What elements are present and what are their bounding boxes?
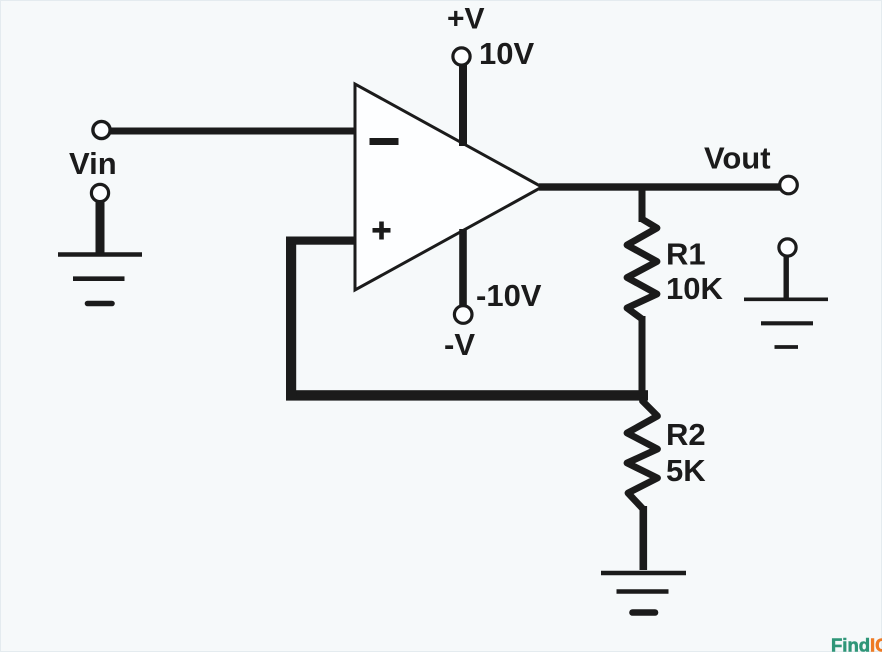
wire feedback vertical riser (286, 237, 296, 397)
terminal +V (453, 48, 470, 65)
wire Vin to inverting input (108, 128, 356, 135)
svg-text:FindIC: FindIC (831, 635, 882, 652)
resistor R1 (627, 219, 657, 319)
terminal (right, to ground) (779, 239, 796, 256)
wire R2 to bottom ground (640, 506, 648, 570)
op-amp non-inverting input marker (plus) (373, 228, 391, 233)
svg-text:Vin: Vin (69, 146, 117, 181)
op-amp inverting input marker (minus) (370, 138, 399, 145)
terminal Vout (780, 176, 798, 194)
svg-text:+V: +V (447, 3, 485, 36)
svg-text:5K: 5K (666, 453, 706, 488)
wire +V supply to op-amp (459, 64, 467, 146)
svg-text:10V: 10V (479, 36, 534, 71)
svg-text:R1: R1 (666, 237, 706, 272)
svg-text:10K: 10K (666, 271, 723, 306)
svg-text:-V: -V (444, 327, 475, 362)
op-amp U1 triangle (355, 84, 542, 290)
wire -V supply from op-amp (459, 229, 467, 306)
wire output junction down to R1 (639, 188, 646, 222)
wire feedback horizontal (node to left riser) (286, 390, 648, 400)
ground (bottom, under R2) (601, 573, 686, 613)
terminal -V (454, 306, 472, 324)
terminal Vin ground tap (91, 184, 108, 201)
resistor R2 (627, 401, 658, 509)
wire riser to non-inverting input (288, 237, 356, 245)
ground (left, under Vin) (58, 255, 142, 304)
wire ground tap to ground (96, 200, 105, 255)
terminal Vin (93, 121, 110, 138)
wire right terminal to ground (784, 255, 789, 299)
wire op-amp output to Vout (539, 183, 781, 190)
wire R1 to feedback node (639, 316, 646, 394)
svg-text:R2: R2 (666, 417, 706, 452)
svg-text:-10V: -10V (476, 278, 542, 313)
svg-text:Vout: Vout (704, 141, 771, 176)
ground (right, under terminal) (744, 299, 828, 347)
